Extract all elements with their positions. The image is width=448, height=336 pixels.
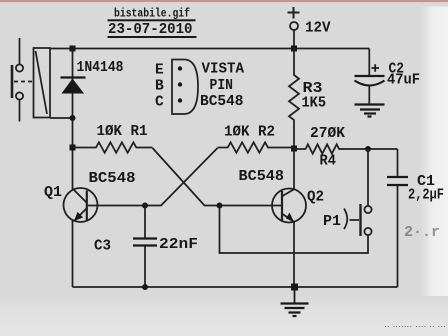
- svg-text:.. ....... .... .. ...: .. ....... .... .. ...: [384, 322, 446, 329]
- resistor R2: [218, 142, 295, 152]
- svg-text:bistabile.gif: bistabile.gif: [114, 8, 190, 21]
- svg-text:2·.r: 2·.r: [404, 224, 440, 241]
- title filename label: [108, 8, 196, 22]
- node junction diode bottom: [70, 115, 76, 121]
- ground symbol main: [281, 287, 309, 316]
- node junction R1 tap (square): [70, 145, 76, 151]
- wire cross-couple A (R1 to Q2 base): [153, 148, 282, 206]
- node junction C3 top: [142, 203, 148, 209]
- svg-text:C: C: [155, 95, 164, 111]
- node junction top-center (square): [291, 46, 297, 52]
- svg-text:47uF: 47uF: [387, 73, 420, 89]
- svg-text:BC548: BC548: [239, 169, 285, 185]
- svg-text:12V: 12V: [305, 21, 331, 37]
- wire bottom ground rail: [73, 286, 398, 288]
- transistor pinout legend: [155, 60, 244, 115]
- svg-text:BC548: BC548: [89, 171, 136, 187]
- wire Q1 emitter to ground rail: [72, 220, 74, 287]
- capacitor C1: [387, 149, 408, 287]
- node junction C3 bottom: [142, 284, 148, 290]
- svg-text:P1: P1: [323, 214, 341, 230]
- svg-text:1N4148: 1N4148: [77, 60, 124, 76]
- node junction R3 bottom (square): [291, 146, 297, 152]
- resistor R3: [289, 49, 299, 149]
- title date label: [108, 22, 197, 38]
- svg-text:Q1: Q1: [44, 185, 62, 201]
- svg-text:23-07-2010: 23-07-2010: [108, 22, 193, 38]
- svg-text:R4: R4: [320, 154, 337, 170]
- relay coil K1: [34, 48, 51, 118]
- diode 1N4148: [61, 78, 86, 94]
- wire cross-couple B (R2 to Q1 base): [87, 148, 218, 206]
- resistor R1: [73, 142, 153, 152]
- svg-text:27ØK: 27ØK: [310, 126, 345, 142]
- node junction P1 top: [365, 146, 371, 152]
- svg-text:BC548: BC548: [200, 94, 244, 110]
- capacitor C2 (electrolytic): [355, 49, 385, 104]
- svg-text:1K5: 1K5: [302, 96, 327, 112]
- svg-text:VISTA: VISTA: [202, 62, 245, 78]
- pushbutton switch (relay contact): [12, 38, 33, 122]
- svg-text:1ØK R2: 1ØK R2: [224, 125, 275, 141]
- transistor Q1 BC548: [64, 188, 98, 222]
- resistor R4: [294, 144, 398, 153]
- wire Q2 emitter: [293, 222, 295, 287]
- svg-text:22nF: 22nF: [159, 237, 198, 253]
- wire relay bottom: [50, 117, 73, 119]
- node junction ground (square): [291, 284, 298, 291]
- wire Q2 collector: [293, 149, 295, 190]
- wire top rail: [50, 48, 369, 50]
- svg-text:PIN: PIN: [210, 78, 234, 94]
- ground under C2: [355, 105, 385, 117]
- wire left vertical (collector rail): [72, 49, 74, 191]
- pushbutton P1: [220, 149, 372, 253]
- svg-text:Q2: Q2: [307, 190, 324, 206]
- svg-text:C3: C3: [94, 239, 111, 255]
- svg-text:E: E: [155, 63, 164, 79]
- capacitor C3: [133, 206, 157, 288]
- transistor Q2 BC548: [272, 189, 306, 223]
- node junction top-left (square): [70, 46, 76, 52]
- svg-text:2,2µF: 2,2µF: [408, 188, 444, 204]
- node junction P1 branch: [217, 203, 223, 209]
- svg-text:1ØK R1: 1ØK R1: [97, 124, 148, 140]
- svg-text:B: B: [155, 79, 164, 95]
- 12V supply terminal: [288, 7, 300, 49]
